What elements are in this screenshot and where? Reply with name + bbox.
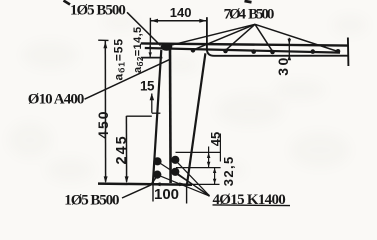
mesh dot 5 [311, 49, 316, 54]
flange right end edge [347, 38, 350, 67]
flange bottom edge left of web [141, 57, 163, 59]
dim 140 line [150, 20, 207, 22]
dim a_b line small cluster [149, 44, 151, 58]
leader 1O5 B500 bottom [122, 175, 158, 198]
stray scan mark above 7O4 label [245, 1, 252, 2]
fan leader lines 7O4 B500 [169, 24, 256, 46]
dim a_b arrow down [149, 52, 152, 57]
dim 15 jog [152, 112, 161, 114]
dim 245 line [125, 116, 127, 182]
web right edge [187, 53, 205, 184]
dim 32,5 arrow down [213, 179, 217, 184]
mesh dot 3 [251, 49, 256, 54]
dim 450 bottom arrow [104, 176, 108, 183]
dim 32,5 arrow up [213, 168, 217, 173]
dim 45 shelf line [219, 134, 221, 162]
svg-text:245: 245 [114, 134, 130, 164]
svg-text:4Ø15 K1400: 4Ø15 K1400 [213, 192, 286, 208]
rebar junction blob top of bar [161, 43, 173, 51]
dim 245 bottom arrow [125, 176, 129, 183]
faint scan mottling [8, 14, 368, 182]
mesh dot 2 [223, 49, 228, 54]
svg-text:45: 45 [208, 132, 223, 146]
dim a_b tick [145, 43, 158, 45]
dim 15 line [151, 94, 153, 113]
flange mesh wire line [145, 48, 340, 53]
dim 15 arrow [150, 93, 155, 100]
rebar frame vertical bar 1O5 [169, 49, 172, 184]
dim 45 arrow up [207, 153, 211, 158]
mesh dot 1 [191, 48, 196, 53]
dim 140 left extension [149, 18, 151, 44]
svg-text:1Ø5 B500: 1Ø5 B500 [70, 2, 125, 18]
dim 140 right extension [206, 17, 208, 44]
dim a_b arrow up [149, 44, 152, 49]
strand dot bottom left lower [153, 171, 161, 179]
strand dot bottom right lower [171, 168, 179, 176]
strand dot bottom right upper [171, 156, 179, 164]
dim 100 left arrow [154, 182, 161, 186]
mesh dot 6 [336, 49, 341, 54]
flange top edge [141, 43, 348, 45]
label 4O15 underline [213, 204, 291, 207]
svg-text:32,5: 32,5 [221, 155, 236, 186]
dim 30 arrow upper [288, 39, 292, 45]
dim 450 top serif [98, 39, 108, 41]
dim 140 right arrow [199, 19, 206, 23]
svg-text:Ø10 A400: Ø10 A400 [28, 91, 84, 107]
dim 30 line [288, 38, 290, 60]
svg-text:140: 140 [170, 5, 192, 20]
dim 100 right arrow [179, 182, 186, 186]
svg-text:7Ø4 B500: 7Ø4 B500 [224, 6, 274, 22]
strand dot bottom left upper [153, 157, 161, 165]
svg-text:1Ø5 B500: 1Ø5 B500 [64, 193, 119, 209]
dim 450 line [104, 40, 106, 182]
web bottom edge [98, 184, 192, 185]
mesh dot 4 [270, 50, 275, 55]
dim 45 line [208, 147, 210, 168]
dim 450 top arrow [103, 42, 107, 49]
dim 100 left extension [152, 184, 154, 202]
dim 245 top jog [126, 115, 151, 117]
web bottom extension right [192, 183, 220, 185]
svg-text:aб1=55: aб1=55 [111, 38, 126, 80]
flange bottom edge right of web with fillet [207, 45, 348, 56]
stray scan mark top-left [64, 1, 71, 5]
dim 45 arrow down [207, 162, 211, 167]
dim 45 extension lower [176, 167, 221, 169]
leader O10 A400 [85, 59, 171, 99]
dim 45 extension upper [176, 151, 221, 153]
dim 32,5 line [214, 168, 216, 184]
dim 30 arrow lower [288, 55, 292, 61]
svg-text:15: 15 [140, 79, 155, 94]
web left edge [153, 50, 162, 184]
dim 140 left arrow [151, 19, 158, 23]
leader 1O5 B500 top [127, 12, 161, 45]
dim 100 right extension [186, 184, 188, 203]
svg-text:450: 450 [95, 109, 111, 138]
leaders 4O15 K1400 [158, 162, 210, 196]
svg-text:30: 30 [275, 55, 291, 76]
svg-text:100: 100 [154, 186, 179, 203]
